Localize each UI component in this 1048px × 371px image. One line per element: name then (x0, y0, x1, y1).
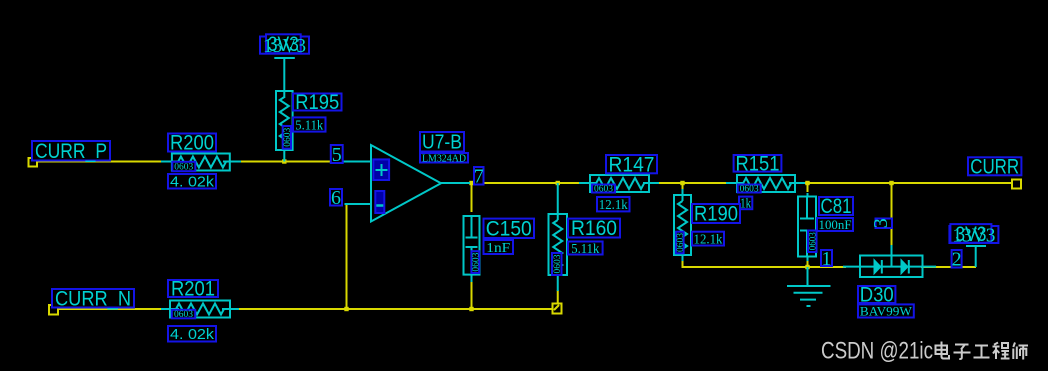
svg-text:0603: 0603 (174, 162, 194, 172)
svg-text:100nF: 100nF (819, 217, 852, 232)
svg-text:LM324AD: LM324AD (422, 153, 466, 164)
svg-text:3V3: 3V3 (268, 33, 299, 56)
svg-text:R147: R147 (609, 153, 655, 176)
svg-text:1: 1 (822, 248, 832, 270)
svg-text:5: 5 (332, 144, 342, 166)
svg-text:C81: C81 (821, 195, 852, 218)
svg-text:5.11k: 5.11k (571, 242, 599, 257)
svg-text:4. 02k: 4. 02k (170, 326, 215, 343)
svg-text:1k: 1k (740, 197, 751, 212)
svg-text:0603: 0603 (471, 252, 481, 272)
svg-text:CURR_N: CURR_N (55, 287, 131, 310)
svg-text:R160: R160 (571, 217, 617, 240)
svg-text:5.11k: 5.11k (295, 118, 323, 133)
svg-text:U7-B: U7-B (422, 132, 462, 154)
svg-text:1nF: 1nF (486, 241, 510, 256)
svg-text:3: 3 (870, 218, 892, 228)
svg-text:3V3: 3V3 (955, 223, 986, 246)
svg-text:R200: R200 (170, 132, 214, 155)
svg-text:0603: 0603 (282, 127, 292, 147)
svg-text:12.1k: 12.1k (694, 232, 723, 247)
svg-text:0603: 0603 (740, 184, 760, 194)
svg-text:CURR: CURR (970, 155, 1019, 178)
svg-text:R201: R201 (171, 278, 215, 301)
svg-text:BAV99W: BAV99W (860, 303, 913, 318)
svg-text:0603: 0603 (552, 254, 562, 274)
svg-text:CURR_P: CURR_P (35, 140, 107, 163)
svg-text:R195: R195 (295, 91, 339, 114)
svg-text:7: 7 (474, 166, 484, 188)
svg-text:12.1k: 12.1k (599, 198, 628, 213)
svg-text:0603: 0603 (174, 309, 194, 319)
svg-text:0603: 0603 (807, 232, 817, 251)
svg-text:C150: C150 (486, 217, 532, 240)
svg-text:0603: 0603 (594, 184, 614, 194)
svg-text:4. 02k: 4. 02k (170, 173, 215, 190)
svg-text:CSDN @21ic: CSDN @21ic (821, 338, 933, 365)
svg-text:0603: 0603 (675, 232, 685, 252)
svg-text:R190: R190 (694, 203, 738, 226)
svg-text:R151: R151 (736, 152, 780, 175)
svg-text:6: 6 (331, 187, 341, 209)
svg-text:2: 2 (952, 249, 962, 271)
